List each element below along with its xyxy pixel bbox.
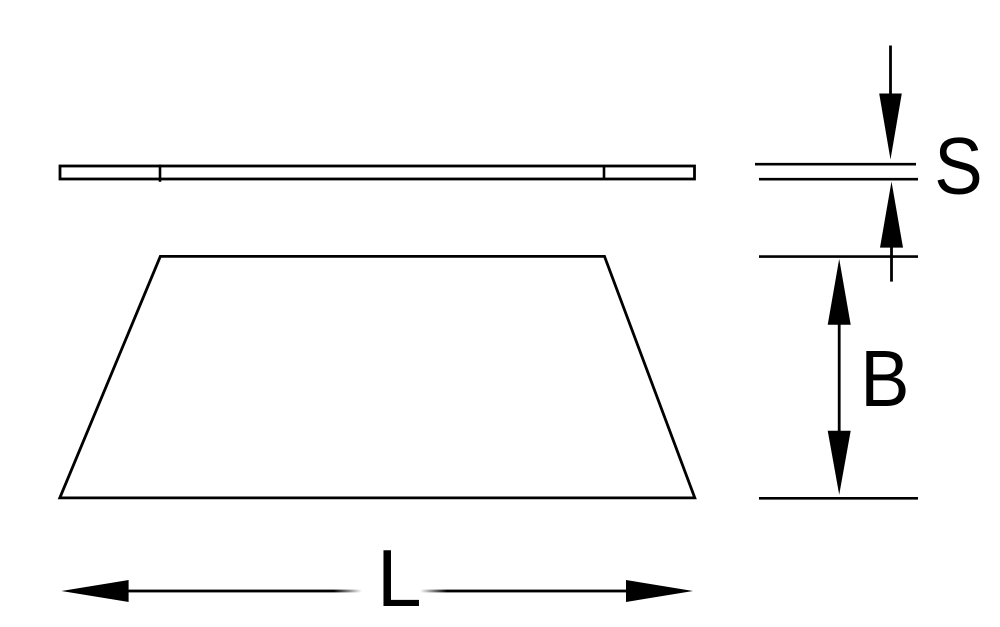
B dimension upper arrow [828, 259, 851, 325]
label B [860, 334, 909, 423]
side view right segment divider [603, 165, 606, 179]
S dimension lower arrow [880, 182, 903, 282]
svg-text:L: L [377, 534, 422, 624]
L dimension line left segment [0, 0, 1, 1]
svg-text:S: S [934, 121, 982, 212]
S extension line bottom [759, 178, 918, 181]
svg-text:B: B [860, 334, 909, 423]
S extension line top [755, 163, 916, 166]
blade side view outline [60, 166, 695, 179]
side view left segment divider [159, 165, 162, 182]
L dimension line right segment [0, 0, 1, 1]
B extension line bottom [759, 497, 918, 500]
L dimension right arrow [626, 580, 693, 602]
L dimension left arrow [61, 580, 128, 602]
S dimension upper arrow [879, 46, 902, 160]
blade plan view trapezoid [60, 256, 695, 498]
label S [934, 121, 982, 212]
B dimension line [838, 323, 841, 433]
B dimension lower arrow [828, 431, 851, 495]
B extension line top [759, 255, 918, 258]
